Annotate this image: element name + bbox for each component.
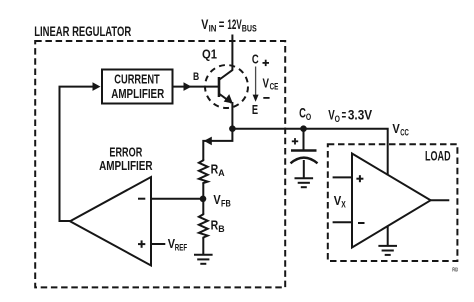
svg-text:CE: CE [270,82,279,92]
svg-text:BUS: BUS [242,24,257,34]
label RA [211,161,226,178]
linear regulator dashed boundary box [35,41,285,287]
current amplifier block [102,70,173,104]
wire current amplifier output to base [174,86,219,88]
wire output node to VCC corner into load [232,129,387,176]
transistor Q1 (NPN) [205,65,248,108]
wire RA to VFB node [202,183,204,199]
arrowhead on base wire [184,82,192,91]
label VX [334,193,346,210]
wire RB to ground [202,238,204,255]
resistor RA [199,159,208,184]
Q1 base bar [218,77,221,97]
VCE annotation arrow [255,67,257,97]
label VREF [168,236,188,253]
svg-text:CURRENT: CURRENT [114,72,160,87]
ground below CO [295,178,314,187]
svg-text:CC: CC [400,127,409,137]
load minus input stub [333,221,353,223]
svg-text:V: V [392,121,400,136]
svg-text:V: V [213,192,221,207]
wire emitter down to output node [231,102,233,129]
load output wire [430,199,449,201]
label RB [211,217,225,234]
inverting input minus sign [138,198,145,200]
Q1 collector diagonal [220,70,233,80]
node VIN label [201,17,257,34]
svg-text:Q1: Q1 [202,46,217,61]
label VCE [263,76,279,91]
load amplifier triangle [352,154,431,248]
svg-text:O: O [306,112,311,122]
svg-text:E: E [252,103,258,117]
svg-text:AMPLIFIER: AMPLIFIER [111,86,164,101]
Q1 emitter diagonal with arrow [220,94,232,103]
svg-text:C: C [252,53,259,67]
svg-text:A: A [218,168,225,178]
VREF input stub [151,243,165,245]
plus sign of VCE annotation [263,60,270,66]
label VFB [213,192,230,209]
ground below RB [194,255,213,264]
svg-text:IN: IN [209,24,217,34]
load dashed boundary box [328,144,458,261]
arrowhead into current amplifier [93,82,101,91]
svg-text:LINEAR REGULATOR: LINEAR REGULATOR [34,24,131,39]
load plus sign [356,175,363,182]
load plus input stub [333,176,353,178]
load minus sign [358,222,365,224]
junction dot VFB [200,196,207,203]
svg-text:12V: 12V [227,17,242,32]
junction dot at CO node [300,125,307,132]
cap curved bottom plate [291,158,318,164]
minus sign of VCE annotation [263,97,269,99]
label ERROR AMPLIFIER [99,145,153,173]
resistor RB [199,213,208,239]
wire VFB to RB [202,199,204,214]
wire VIN to Q1 collector [231,35,233,71]
label VCC [392,121,409,138]
svg-text:C: C [299,106,306,121]
dashed circle around Q1 [205,65,248,108]
label VO = 3.3V [328,108,372,125]
svg-text:B: B [218,224,224,234]
capacitor CO [291,129,318,178]
wire cap to ground [303,160,305,178]
svg-text:X: X [341,199,346,209]
wire CO node down to cap [303,129,305,150]
wire apex stub to output wire [59,220,71,222]
svg-text:=: = [219,17,225,32]
svg-text:B: B [193,71,199,83]
svg-text:=: = [342,108,347,123]
wire VFB to inverting input [151,198,203,200]
label CO [299,106,311,123]
non-inverting input plus sign [138,240,145,247]
cap plus sign [292,138,298,144]
svg-text:AMPLIFIER: AMPLIFIER [99,158,153,173]
junction dot at emitter output node [229,125,236,132]
svg-text:F03: F03 [452,267,458,273]
cap top plate [291,149,317,151]
arrowhead on feedback wire [204,137,212,146]
svg-text:LOAD: LOAD [425,148,451,163]
svg-text:V: V [263,76,270,90]
svg-text:O: O [335,114,340,124]
svg-text:FB: FB [221,198,231,208]
svg-text:3.3V: 3.3V [348,108,372,123]
wire output node down-left to feedback divider with arrow [203,129,232,160]
error amplifier triangle [70,177,151,266]
ground of load amplifier [378,226,397,255]
svg-text:REF: REF [175,243,188,253]
wire error amplifier output to current amplifier input [60,87,94,221]
